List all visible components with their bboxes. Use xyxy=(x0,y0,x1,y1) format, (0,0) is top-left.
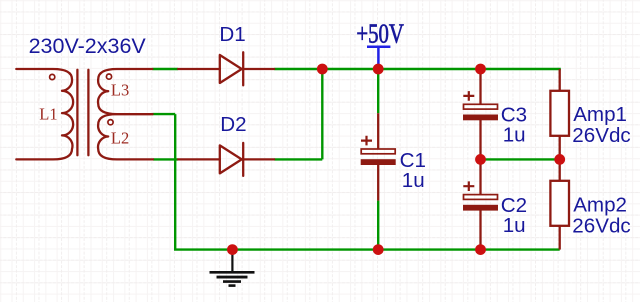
svg-text:L2: L2 xyxy=(111,129,129,148)
svg-text:L1: L1 xyxy=(39,105,57,124)
svg-text:1u: 1u xyxy=(402,169,425,192)
svg-text:D2: D2 xyxy=(220,113,246,136)
svg-text:Amp1: Amp1 xyxy=(573,103,627,126)
svg-text:+50V: +50V xyxy=(356,19,404,49)
svg-text:1u: 1u xyxy=(503,124,526,147)
svg-text:26Vdc: 26Vdc xyxy=(572,215,630,238)
svg-text:1u: 1u xyxy=(503,214,526,237)
svg-text:Amp2: Amp2 xyxy=(573,193,627,216)
svg-text:230V-2x36V: 230V-2x36V xyxy=(29,34,147,58)
svg-text:D1: D1 xyxy=(219,23,245,46)
svg-text:26Vdc: 26Vdc xyxy=(572,124,630,147)
svg-text:L3: L3 xyxy=(111,81,129,100)
